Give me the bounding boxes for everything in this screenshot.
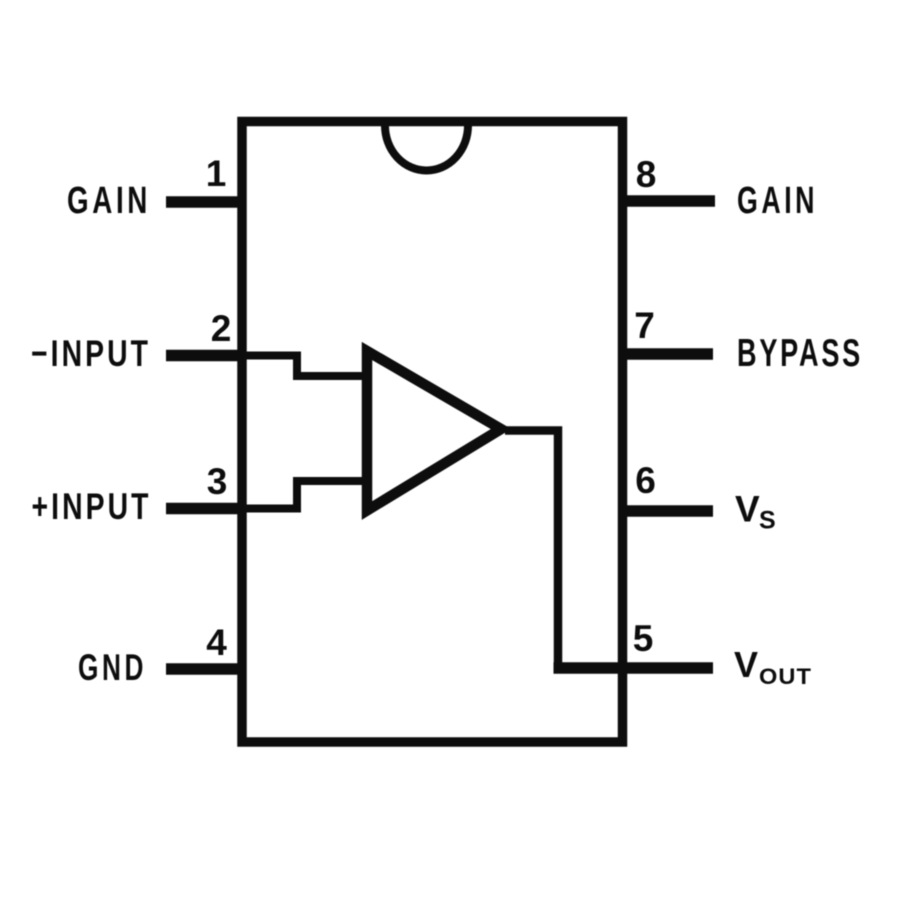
svg-text:7: 7	[634, 305, 655, 346]
wire op-amp output to pin 5	[505, 431, 558, 669]
pin 1 lead	[166, 196, 246, 208]
svg-text:3: 3	[207, 461, 228, 502]
pin 3 lead	[166, 503, 246, 515]
svg-text:V: V	[734, 644, 758, 685]
svg-text:8: 8	[636, 154, 657, 195]
svg-text:+INPUT: +INPUT	[32, 486, 152, 527]
notch (pin-1 index mark)	[385, 126, 468, 171]
svg-text:1: 1	[206, 153, 227, 194]
svg-text:V: V	[735, 489, 760, 530]
svg-text:2: 2	[211, 308, 232, 349]
svg-text:−INPUT: −INPUT	[31, 333, 151, 374]
IC body (DIP-8 package outline)	[242, 122, 623, 743]
svg-text:S: S	[759, 507, 776, 535]
svg-text:4: 4	[206, 622, 227, 663]
svg-text:BYPASS: BYPASS	[737, 332, 863, 375]
pin 2 lead	[166, 350, 246, 362]
pin 8 lead	[618, 195, 715, 207]
pin 6 lead	[618, 505, 713, 517]
svg-text:OUT: OUT	[759, 664, 812, 689]
svg-text:GAIN: GAIN	[737, 180, 818, 222]
pin 5 lead	[554, 662, 714, 674]
pin 7 lead	[618, 348, 713, 360]
op-amp U1 (amplifier triangle)	[367, 351, 501, 511]
svg-text:GAIN: GAIN	[67, 180, 151, 222]
svg-text:5: 5	[633, 618, 654, 659]
wire pin 3 to op-amp non-inverting input	[242, 481, 366, 509]
pin 4 lead	[166, 663, 246, 675]
svg-text:6: 6	[635, 460, 656, 501]
wire pin 2 to op-amp inverting input	[242, 356, 366, 377]
svg-text:GND: GND	[78, 647, 147, 688]
